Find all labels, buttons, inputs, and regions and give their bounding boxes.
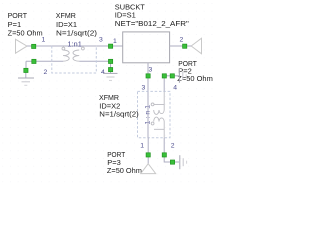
svg-text:Z=50 Ohm: Z=50 Ohm — [107, 166, 142, 175]
wire X1 pin2 down to ground node — [25, 61, 27, 68]
node ground port1 — [24, 68, 28, 72]
node ground bottom right — [170, 160, 174, 164]
transformer X2 secondary dot circle — [151, 122, 154, 125]
svg-text:ID=X1: ID=X1 — [56, 20, 77, 29]
transformer X1 dashed box — [52, 46, 97, 73]
svg-text:3: 3 — [149, 66, 153, 73]
svg-text:2: 2 — [44, 69, 48, 76]
svg-text:1:n1: 1:n1 — [68, 39, 82, 48]
node X1 pin4 — [109, 59, 113, 63]
wire port2 stub — [185, 45, 192, 47]
port P1 label text — [8, 11, 43, 37]
svg-text:XFMR: XFMR — [56, 11, 77, 20]
svg-text:N=1/sqrt(2): N=1/sqrt(2) — [56, 29, 98, 38]
port P2 symbol — [191, 38, 201, 54]
svg-text:3: 3 — [99, 36, 103, 43]
svg-text:N=1/sqrt(2): N=1/sqrt(2) — [99, 109, 139, 118]
wire X2 pin4 up — [163, 76, 165, 92]
svg-text:PORT: PORT — [8, 11, 28, 20]
ground right of X2 pin2 (rotated) — [173, 155, 187, 169]
transformer X2 label text — [99, 93, 139, 118]
node ground top right — [170, 74, 174, 78]
transformer X2 winding A — [154, 91, 165, 114]
svg-text:2: 2 — [180, 36, 184, 43]
port P3 label text — [107, 150, 142, 175]
node X2 pin2 — [162, 153, 166, 157]
svg-text:1: 1 — [140, 142, 144, 149]
node X2 pin1 / port3 — [146, 153, 150, 157]
wire X1 pin3 to subckt pin1 — [96, 45, 122, 47]
subcircuit S1 label text — [115, 2, 189, 28]
transformer X2 left rail wire — [147, 91, 149, 137]
wire port3 stub — [147, 155, 149, 164]
port P3 symbol — [141, 164, 156, 174]
node X2 pin4 — [162, 74, 166, 78]
transformer X2 dashed box — [138, 91, 171, 137]
wire subckt pin3 down — [147, 63, 149, 92]
ground under port1 — [18, 70, 34, 85]
node X1 pin2 — [32, 59, 36, 63]
svg-text:P=1: P=1 — [8, 20, 22, 29]
svg-text:4: 4 — [101, 69, 105, 76]
transformer X1 secondary dot circle — [82, 47, 85, 50]
wire X2 pin4 node to right ground node — [164, 75, 172, 77]
svg-text:2: 2 — [171, 142, 175, 149]
node X1 pin3 / subckt pin1 — [109, 44, 113, 48]
node port2 / subckt pin2 — [183, 44, 187, 48]
svg-text:1: 1 — [113, 38, 117, 45]
transformer X1 primary dot circle — [62, 47, 65, 50]
port P2 label text — [177, 59, 213, 83]
wire port1 stub — [27, 45, 34, 47]
svg-text:4: 4 — [173, 85, 177, 92]
wire X2 pin1 to port3 — [147, 138, 149, 155]
ground under X1 pin4 node — [104, 70, 118, 81]
svg-text:NET="B012_2_AFR": NET="B012_2_AFR" — [115, 19, 189, 28]
wire top row: port1 node to X1 pin1 — [34, 45, 52, 47]
wire X1 pin4 row — [79, 60, 110, 62]
wire X2 pin2 down — [164, 138, 172, 162]
node subckt pin3 / X2 pin3 — [146, 74, 150, 78]
node port1 / X1 pin1 — [32, 44, 36, 48]
node ground X1 pin4 — [109, 68, 113, 72]
svg-text:3: 3 — [142, 84, 146, 91]
wire X1 pin2 row — [26, 60, 63, 62]
transformer X1 top edge — [52, 45, 97, 47]
transformer X1 label text — [56, 11, 98, 37]
transformer X2 winding B — [154, 117, 165, 138]
transformer X1 secondary winding — [73, 46, 83, 61]
svg-text:Z=50 Ohm: Z=50 Ohm — [8, 29, 43, 38]
wire subckt pin2 to port2 — [170, 45, 185, 47]
transformer X1 primary winding — [63, 46, 69, 61]
transformer X2 primary dot circle — [151, 103, 154, 106]
wire X1 pin4 down to ground — [110, 61, 112, 69]
svg-text:1: 1 — [42, 36, 46, 43]
subcircuit S1 box — [123, 32, 170, 63]
port P1 symbol — [16, 39, 28, 53]
ground right of X2 pin4 node (rotated) — [172, 69, 186, 83]
